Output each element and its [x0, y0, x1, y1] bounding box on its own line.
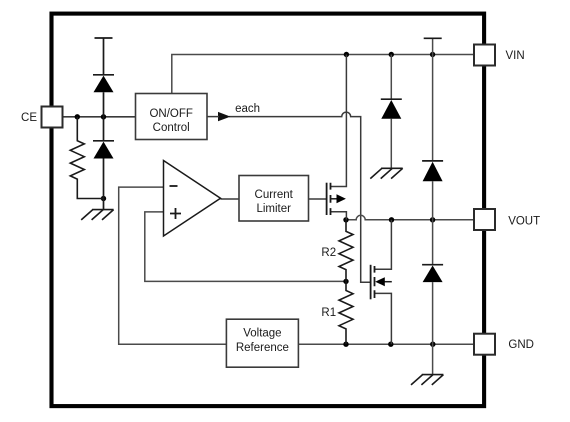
wire: VIN ESD diode branch — [390, 55, 392, 169]
block ON/OFF Control — [136, 94, 208, 140]
pin VIN — [474, 45, 495, 66]
transistor Q2 NMOS drain to VOUT rail — [375, 220, 392, 269]
node: feedback divider tap — [343, 279, 348, 284]
node: VOUT rail at clamp chain — [430, 217, 435, 222]
ground symbol left — [81, 210, 113, 220]
transistor Q1 PMOS pass: source to VIN rail — [331, 55, 347, 187]
diode D4 upper right clamp — [422, 160, 443, 162]
resistor R1 — [339, 281, 353, 344]
svg-text:Control: Control — [153, 122, 190, 134]
svg-text:Limiter: Limiter — [256, 203, 291, 215]
node: VIN rail at PMOS source — [344, 52, 349, 57]
pin CE — [42, 107, 63, 128]
node: GND rail at clamp chain — [430, 342, 435, 347]
transistor Q2 NMOS source to GND rail — [375, 293, 392, 344]
svg-text:Voltage: Voltage — [243, 328, 281, 340]
svg-text:Reference: Reference — [236, 342, 289, 354]
arrowhead on each wire — [218, 112, 231, 121]
resistor R2 — [339, 220, 353, 282]
svg-text:GND: GND — [508, 339, 534, 351]
transistor Q1 PMOS channel bar — [330, 183, 332, 215]
diode D1 upper left clamp — [93, 74, 114, 76]
diode D2 lower left clamp — [93, 140, 114, 142]
wire: minus input of op-amp to Voltage Reference — [119, 187, 227, 344]
transistor Q1 PMOS gate bar — [326, 183, 328, 215]
resistor Rce pulldown — [70, 117, 103, 199]
node: VOUT rail at NMOS drain — [389, 217, 394, 222]
wire: feedback node to op-amp plus input — [145, 212, 346, 282]
op-amp U1 error amplifier — [164, 161, 221, 237]
block Current Limiter — [239, 176, 309, 222]
wire: Current Limiter output to PMOS gate — [309, 198, 327, 200]
supply T-bar right — [424, 37, 442, 39]
svg-text:VOUT: VOUT — [508, 215, 540, 227]
transistor Q1 PMOS drain to VOUT node — [331, 212, 347, 220]
node: VOUT rail at PMOS drain — [343, 217, 348, 222]
block Voltage Reference — [226, 319, 298, 367]
wire: op-amp output to Current Limiter — [221, 198, 240, 200]
svg-text:Current: Current — [255, 189, 294, 201]
svg-text:R2: R2 — [321, 247, 336, 259]
svg-text:R1: R1 — [321, 307, 336, 319]
wire: VOUT rail (hop over gate vertical) — [346, 215, 474, 220]
wire: each net from arrow to NMOS gate (hop over VIN vertical) — [229, 112, 371, 282]
IC outline border — [52, 14, 485, 407]
pin GND — [474, 334, 495, 355]
op-amp minus marking — [170, 185, 178, 187]
transistor Q2 NMOS gate bar — [370, 265, 372, 300]
supply T-bar left — [95, 37, 113, 39]
node: GND rail at NMOS source — [388, 342, 393, 347]
transistor Q2 NMOS channel bar — [374, 266, 376, 298]
pin VOUT — [474, 209, 495, 230]
node: VIN rail at ESD diode — [389, 52, 394, 57]
ground symbol bottom right — [411, 375, 443, 385]
diode D5 lower right clamp — [422, 264, 443, 266]
svg-text:each: each — [235, 103, 260, 115]
node: GND rail at R1 — [343, 342, 348, 347]
ground symbol under D3 — [370, 168, 402, 178]
wire: left clamp chain vertical — [103, 38, 105, 210]
svg-text:VIN: VIN — [506, 50, 525, 62]
wire: VIN rail from ON/OFF Control top to VIN pin — [172, 55, 474, 94]
wire: GND rail from Voltage Reference to GND pin — [298, 343, 474, 345]
transistor Q1 PMOS body stub with arrow — [331, 198, 341, 200]
transistor Q2 NMOS body stub with arrow — [382, 281, 392, 283]
svg-text:CE: CE — [21, 112, 37, 124]
wire: CE pin to ON/OFF Control input — [62, 116, 136, 118]
svg-text:ON/OFF: ON/OFF — [149, 108, 192, 120]
node: left chain bottom junction — [101, 196, 106, 201]
op-amp plus marking — [170, 208, 181, 219]
wire: right clamp chain vertical — [432, 38, 434, 375]
node: CE resistor junction — [75, 114, 80, 119]
node: VIN rail at clamp chain — [430, 52, 435, 57]
diode D3 VIN ESD — [381, 98, 402, 100]
node: CE diode chain junction — [101, 114, 106, 119]
